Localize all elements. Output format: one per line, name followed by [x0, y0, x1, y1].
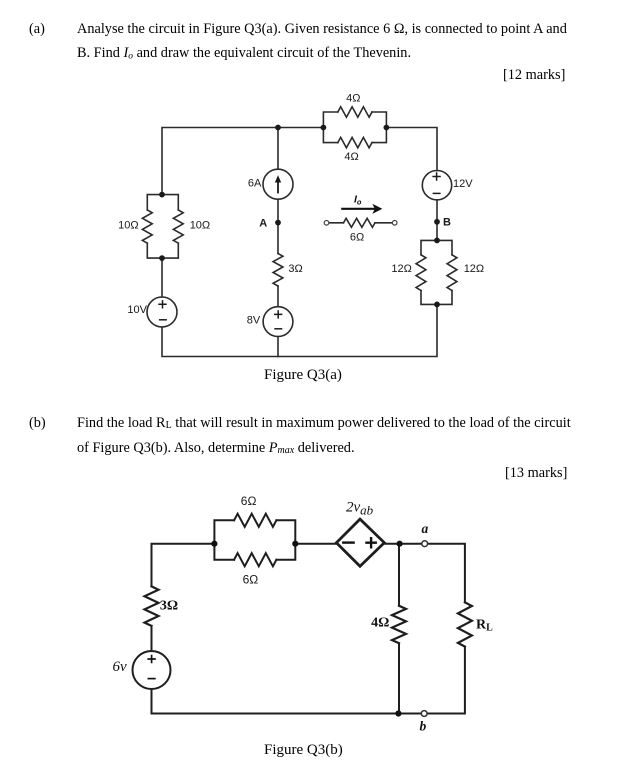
resistor R 6ohm bottom zigzag (b): [234, 553, 276, 566]
node dot 6ohm box left (b): [211, 541, 217, 547]
svg-text:3Ω: 3Ω: [288, 263, 302, 275]
resistor R 3ohm zigzag (b): [145, 586, 159, 626]
minus sign diamond (b): [342, 537, 377, 549]
svg-text:b: b: [420, 719, 427, 734]
resistor 10ohm box frame (a): [147, 195, 178, 259]
resistor R 12ohm right zigzag (a): [447, 255, 457, 291]
current source I1 6A circle (a): [263, 169, 293, 199]
plus sign 10V: [158, 300, 166, 308]
current source arrow 6A (a): [275, 175, 281, 193]
node dot 10ohm box bottom: [159, 255, 165, 261]
marks (a): [503, 67, 565, 84]
resistor R 4ohm zigzag (b): [392, 606, 406, 643]
svg-text:12V: 12V: [453, 178, 473, 190]
node A dot: [275, 220, 281, 226]
minus sign 10V: [159, 319, 167, 321]
wire: top rail left (a): [162, 128, 323, 195]
svg-text:2vab: 2vab: [346, 500, 374, 518]
node B dot: [434, 219, 440, 225]
wire: 4ohm branch (b): [398, 544, 400, 714]
node dot 4ohm top (b): [397, 541, 403, 547]
open terminal node a (b): [422, 541, 428, 547]
svg-text:10Ω: 10Ω: [118, 219, 138, 231]
plus sign 8V: [274, 310, 282, 318]
svg-text:4Ω: 4Ω: [346, 93, 360, 105]
wire: top rail right (a): [386, 128, 437, 171]
problem (a) line 1: [77, 21, 567, 38]
svg-text:6v: 6v: [113, 659, 128, 675]
svg-text:4Ω: 4Ω: [371, 616, 389, 631]
problem (b) line 1: [77, 415, 571, 432]
svg-text:a: a: [422, 521, 429, 536]
resistor R 4ohm bottom zigzag (a): [338, 137, 372, 147]
arrow Io (a): [341, 204, 382, 214]
wire: left branch lower (b): [152, 626, 465, 714]
svg-text:6Ω: 6Ω: [243, 573, 259, 587]
wire: top rail left (b): [152, 544, 215, 587]
svg-text:A: A: [259, 217, 267, 229]
plus sign 12V: [158, 172, 441, 328]
node dot 6ohm box right (b): [292, 541, 298, 547]
resistor R 10ohm left zigzag (a): [142, 210, 152, 243]
problem (a) line 2: [77, 45, 411, 62]
node dot top mid (a): [275, 125, 281, 131]
voltage source V 12V circle (a): [422, 171, 451, 200]
resistor R 3ohm zigzag (a): [273, 254, 283, 287]
problem (b) line 2: [77, 440, 355, 457]
caption Figure Q3(b): [264, 742, 343, 759]
resistor R 6ohm output zigzag (a): [329, 222, 344, 224]
problem (b) label: [29, 415, 46, 432]
minus sign 12V: [433, 192, 441, 194]
node dot 12ohm box top: [434, 238, 440, 244]
node dot 4ohm box right: [384, 125, 390, 131]
svg-text:12Ω: 12Ω: [391, 263, 411, 275]
open terminal right of 6ohm (a): [392, 221, 397, 226]
open terminal node b (b): [421, 711, 427, 717]
svg-text:8V: 8V: [247, 315, 261, 327]
wire: diamond to node a (b): [384, 544, 465, 603]
plus sign diamond (b): [365, 537, 377, 549]
svg-text:6A: 6A: [248, 178, 262, 190]
svg-text:6Ω: 6Ω: [350, 232, 364, 244]
node dot 4ohm box left: [321, 125, 327, 131]
resistor 6ohm box frame (b): [214, 520, 295, 559]
svg-text:B: B: [443, 217, 451, 229]
wire: top rail mid (b): [295, 543, 336, 545]
node dot 12ohm box bottom: [434, 302, 440, 308]
svg-text:Io: Io: [354, 194, 362, 207]
svg-text:10Ω: 10Ω: [190, 219, 210, 231]
voltage source 6v circle (b): [133, 651, 171, 689]
wire: right branch mid (a): [436, 200, 438, 241]
minus sign 6v (b): [148, 678, 156, 680]
resistor R 12ohm left zigzag (a): [416, 255, 426, 291]
plus sign 6v (b): [147, 655, 155, 679]
voltage source V 10V circle (a): [147, 297, 177, 327]
resistor 12ohm box frame (a): [421, 240, 452, 304]
wire: middle branch (a): [277, 128, 279, 357]
wire: left branch lower + bottom rail + right branch lower (a): [162, 258, 437, 356]
svg-text:10V: 10V: [127, 304, 147, 316]
voltage source V 8V circle (a): [263, 307, 293, 337]
svg-text:3Ω: 3Ω: [160, 599, 178, 614]
junction dots circuit (b): [211, 541, 402, 717]
svg-text:4Ω: 4Ω: [344, 151, 358, 163]
resistor RL zigzag (b): [458, 602, 472, 646]
resistor 4ohm box (a) top-parallel pair frame: [323, 112, 386, 143]
caption Figure Q3(a): [264, 367, 342, 384]
junction dots circuit (a): [159, 125, 440, 308]
resistor R 4ohm top zigzag (a): [338, 107, 372, 117]
resistor R 10ohm right zigzag (a): [173, 210, 183, 243]
node dot 10ohm box top: [159, 192, 165, 198]
marks (b): [505, 465, 567, 482]
minus sign 8V: [274, 328, 282, 330]
svg-text:RL: RL: [476, 617, 493, 633]
svg-text:12Ω: 12Ω: [464, 263, 484, 275]
node dot 4ohm bottom (b): [395, 710, 401, 716]
resistor R 6ohm top zigzag (b): [234, 514, 276, 527]
svg-text:6Ω: 6Ω: [241, 494, 257, 508]
problem (a) label: [29, 21, 45, 38]
dependent source diamond 2vab (b): [336, 519, 384, 566]
open terminal left of 6ohm (a): [324, 221, 329, 226]
